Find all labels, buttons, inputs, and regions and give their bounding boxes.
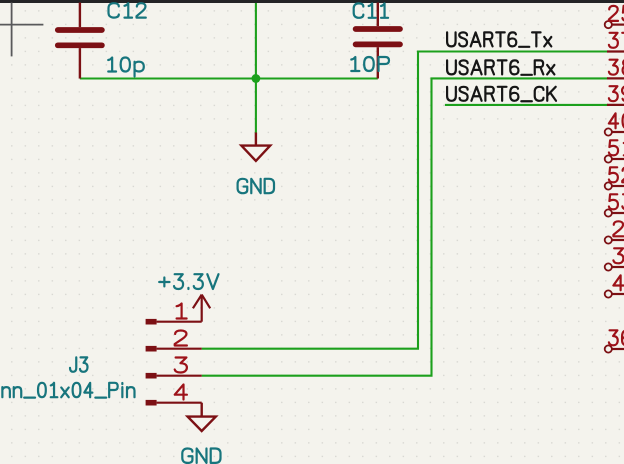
GND label top	[238, 179, 274, 193]
connector J3 pin 4	[146, 385, 202, 406]
junction	[252, 74, 261, 83]
local label USART6_CK	[447, 87, 556, 101]
IC pin 4	[605, 275, 624, 297]
GND label bottom	[182, 449, 220, 463]
capacitor C11	[356, 3, 400, 79]
C12 reference label	[109, 3, 146, 17]
wire USART6_Tx pin37 to J3 pin2	[202, 52, 608, 349]
C12 value 10p	[108, 58, 144, 77]
J3 value Conn_01x04_Pin clipped at left	[0, 383, 134, 398]
IC pin 36	[605, 330, 624, 352]
C11 value 10P	[351, 57, 389, 71]
IC pin 25	[605, 6, 624, 28]
IC pin 37	[607, 33, 624, 52]
IC pin 3	[605, 248, 624, 270]
wire C12-C11 horizontal net	[80, 77, 378, 79]
local label USART6_Tx	[447, 32, 551, 46]
wire USART6_CK pin39 stub	[445, 104, 608, 106]
capacitor C12	[58, 3, 102, 79]
IC pin 52	[605, 167, 624, 189]
IC pin 40	[605, 113, 624, 135]
sheet top border bar	[0, 0, 624, 3]
power symbol +3.3V	[193, 295, 210, 322]
IC pin 39	[607, 86, 624, 105]
IC pin 2	[605, 221, 624, 243]
J3 reference label	[70, 357, 88, 371]
C11 reference label	[354, 3, 388, 17]
IC pin 53	[605, 194, 624, 216]
ground symbol below junction	[241, 133, 270, 161]
local label USART6_Rx	[447, 60, 554, 74]
connector J3 pin 2	[146, 331, 202, 352]
grid origin crosshair	[0, 3, 43, 57]
wire junction down to GND	[255, 79, 257, 133]
IC pin 51	[605, 140, 624, 162]
ground symbol at J3 pin 4	[188, 403, 216, 431]
wire vertical from top to junction	[255, 3, 257, 79]
connector J3 pin 1	[146, 304, 202, 325]
IC pin 38	[607, 60, 624, 79]
connector J3 pin 3	[146, 358, 202, 379]
+3.3V label	[159, 274, 218, 289]
wire USART6_Rx pin38 to J3 pin3	[202, 78, 608, 375]
